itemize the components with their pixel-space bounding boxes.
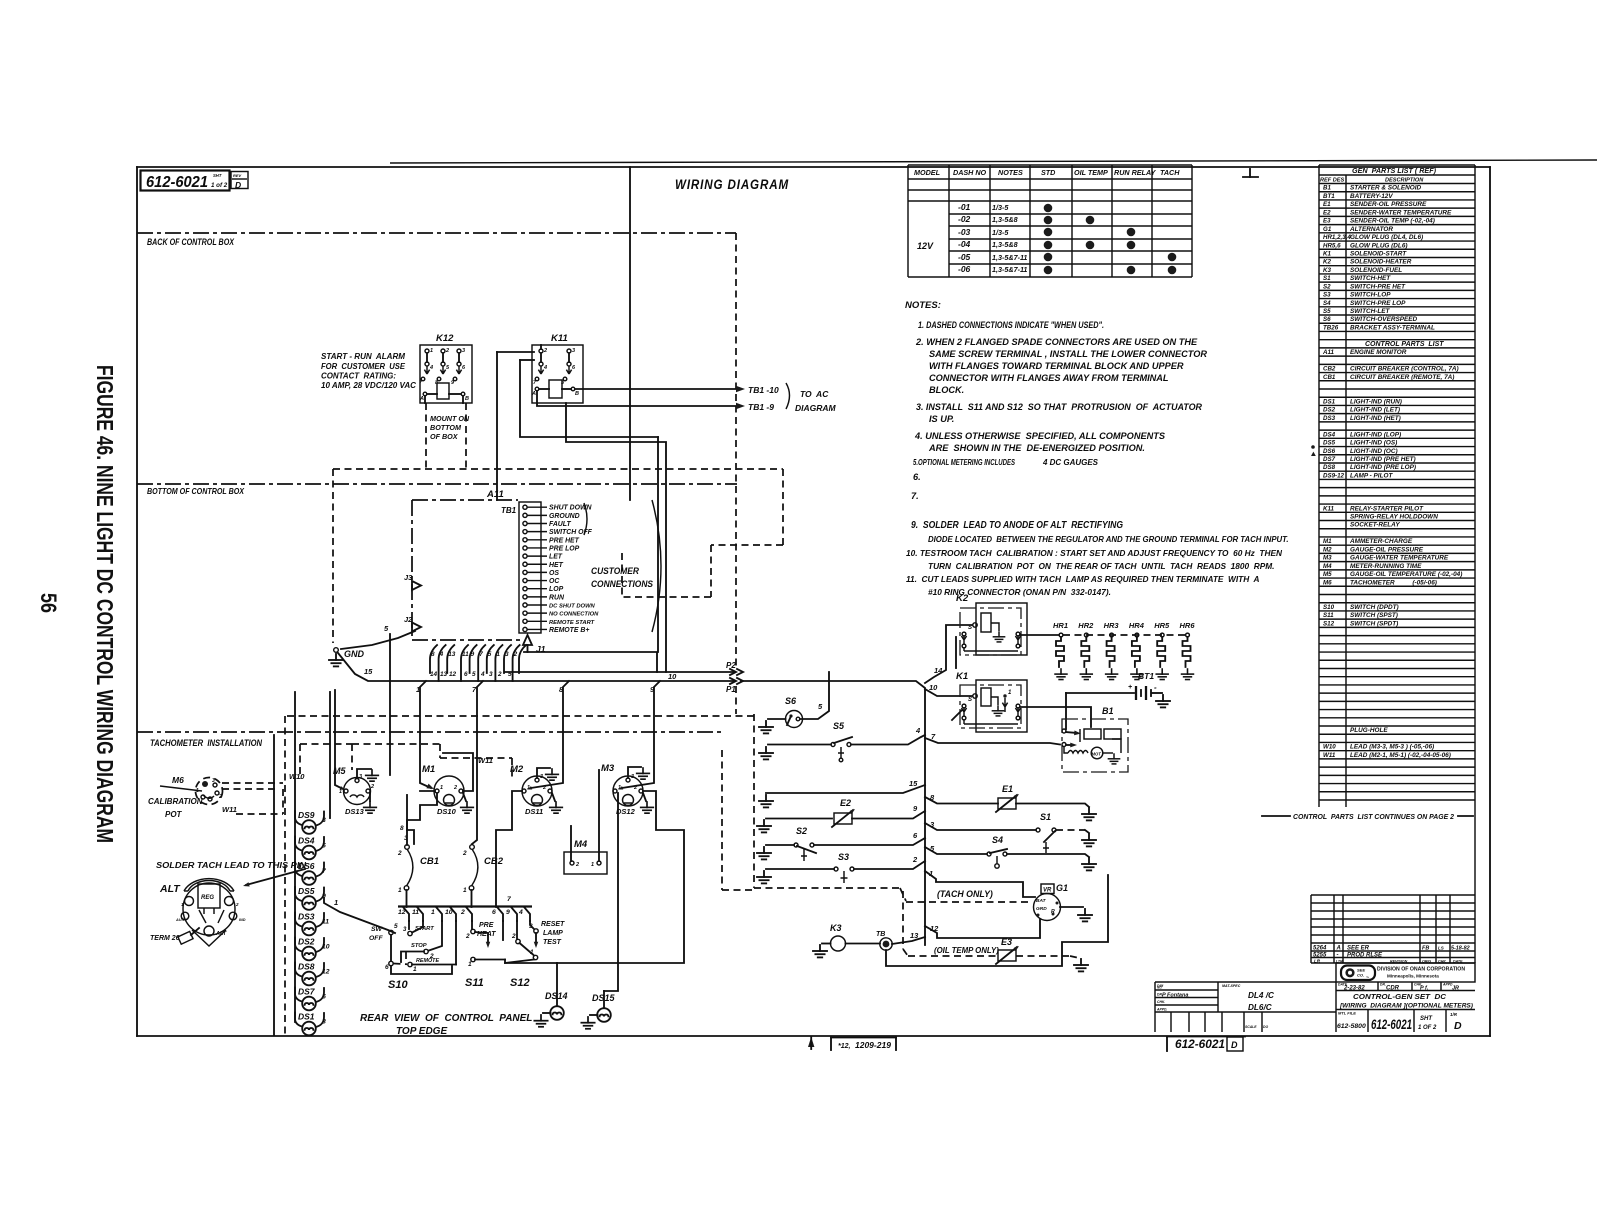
svg-text:12V: 12V <box>917 241 934 251</box>
svg-text:B1: B1 <box>1102 706 1114 716</box>
svg-text:CDR: CDR <box>1386 986 1400 992</box>
svg-text:2: 2 <box>370 784 374 790</box>
ground <box>366 770 379 781</box>
svg-text:LIGHT-IND (LET): LIGHT-IND (LET) <box>1350 407 1400 414</box>
svg-text:1: 1 <box>431 909 435 916</box>
svg-text:6: 6 <box>492 909 496 916</box>
svg-text:LAMP: LAMP <box>543 930 563 937</box>
svg-text:SOLDER TACH LEAD TO THIS PIN: SOLDER TACH LEAD TO THIS PIN <box>156 861 306 870</box>
svg-text:1209-219: 1209-219 <box>855 1040 891 1050</box>
svg-text:7: 7 <box>479 651 483 658</box>
wire M4 pin1 up <box>598 770 600 861</box>
svg-text:SWITCH-HET: SWITCH-HET <box>1350 275 1391 282</box>
ground <box>759 721 773 733</box>
svg-text:BT1: BT1 <box>1323 193 1335 200</box>
svg-text:2-23-82: 2-23-82 <box>1343 986 1365 992</box>
svg-text:1: 1 <box>334 898 338 907</box>
svg-text:2: 2 <box>542 785 546 791</box>
wire P1 line <box>668 672 743 694</box>
ground <box>534 1015 547 1027</box>
ground <box>757 847 771 859</box>
svg-text:S4: S4 <box>992 835 1003 845</box>
panel wiring bus <box>398 896 532 940</box>
svg-text:DS9-12: DS9-12 <box>1323 472 1345 479</box>
notes text block <box>905 300 1207 501</box>
svg-text:TACH: TACH <box>1160 168 1180 177</box>
model option table <box>908 165 1192 277</box>
svg-text:M2: M2 <box>510 764 524 775</box>
svg-text:NO CONNECTION: NO CONNECTION <box>549 612 599 618</box>
label to ac diagram <box>786 383 837 413</box>
svg-text:VR: VR <box>1043 888 1052 894</box>
svg-text:BAT: BAT <box>1036 898 1047 904</box>
svg-text:2: 2 <box>397 850 402 857</box>
svg-text:1 of 2: 1 of 2 <box>211 182 228 189</box>
svg-text:K3: K3 <box>1323 267 1331 274</box>
svg-text:K11: K11 <box>1323 505 1334 512</box>
svg-text:1: 1 <box>527 785 530 791</box>
svg-text:K1: K1 <box>1323 250 1331 257</box>
svg-text:SWITCH-PRE HET: SWITCH-PRE HET <box>1350 283 1406 290</box>
svg-text:STOP: STOP <box>411 943 427 949</box>
switch S5 LET <box>768 721 852 762</box>
wire K11 to TB1-10 <box>575 385 779 395</box>
svg-text:CO.: CO. <box>1357 973 1364 978</box>
wire M1 to CB1 riser <box>407 793 437 845</box>
svg-text:TACHOMETER INSTALLATION: TACHOMETER INSTALLATION <box>150 738 263 749</box>
svg-text:*12,: *12, <box>838 1043 851 1050</box>
svg-text:6.: 6. <box>913 472 921 482</box>
svg-text:PRE HET: PRE HET <box>549 537 580 544</box>
svg-text:MAT-SPEC: MAT-SPEC <box>1222 984 1241 988</box>
note start-run alarm <box>321 352 416 390</box>
svg-text:10: 10 <box>929 683 938 692</box>
svg-text:K12: K12 <box>436 333 454 344</box>
switch S4 pre-LOP <box>987 835 1007 868</box>
wire 5 S6 to P2 <box>800 672 829 719</box>
svg-text:11: 11 <box>412 909 419 916</box>
onan logo block <box>1336 963 1475 982</box>
svg-text:2: 2 <box>218 794 222 800</box>
svg-text:G1: G1 <box>1323 226 1332 233</box>
glow plugs HR1-HR6 <box>1053 621 1195 680</box>
svg-text:[WIRING DIAGRAM ](OPTIONAL ME: [WIRING DIAGRAM ](OPTIONAL METERS) <box>1339 1003 1473 1010</box>
wire control box right boundary <box>735 233 737 668</box>
svg-text:LIGHT-IND (OS): LIGHT-IND (OS) <box>1350 440 1397 447</box>
svg-text:10 AMP, 28 VDC/120 VAC: 10 AMP, 28 VDC/120 VAC <box>321 381 416 390</box>
wire 9 drop to M3 <box>617 681 660 791</box>
svg-text:K2: K2 <box>1323 259 1331 266</box>
svg-text:P f.: P f. <box>1420 986 1429 992</box>
switch S6 overspeed <box>768 696 803 728</box>
svg-text:3: 3 <box>322 817 326 824</box>
wire CB1 to panel bus <box>406 890 408 907</box>
svg-text:DO: DO <box>1263 1025 1268 1029</box>
svg-text:CONTROL PARTS LIST: CONTROL PARTS LIST <box>1365 341 1444 348</box>
svg-text:7.: 7. <box>911 491 919 501</box>
svg-text:9: 9 <box>471 651 475 658</box>
ground <box>759 795 773 807</box>
svg-text:DS3: DS3 <box>1323 415 1336 422</box>
revision table <box>1311 895 1475 964</box>
label customer connections <box>584 500 661 632</box>
svg-text:S5: S5 <box>1323 308 1331 315</box>
svg-text:6: 6 <box>464 671 468 678</box>
svg-text:3: 3 <box>572 348 575 354</box>
ground <box>1082 858 1096 870</box>
svg-text:2: 2 <box>497 671 502 678</box>
wire E1 to ground <box>1016 804 1089 808</box>
svg-text:K1: K1 <box>956 671 968 682</box>
svg-text:NOTES:: NOTES: <box>905 300 941 311</box>
svg-text:HR5,6: HR5,6 <box>1323 242 1341 249</box>
node GND <box>329 648 365 667</box>
svg-text:DS11: DS11 <box>525 807 543 816</box>
svg-text:REF DES: REF DES <box>1320 178 1345 184</box>
svg-text:2: 2 <box>912 855 918 864</box>
svg-text:3: 3 <box>212 778 215 784</box>
svg-text:1: 1 <box>530 949 534 956</box>
svg-text:3: 3 <box>505 651 509 658</box>
title block title <box>1336 992 1475 1010</box>
svg-text:ALT: ALT <box>215 931 227 937</box>
solenoid K3 fuel <box>822 923 846 951</box>
solenoid K2 heater <box>956 593 1027 655</box>
svg-text:ARE SHOWN IN THE DE-ENERGIZE: ARE SHOWN IN THE DE-ENERGIZED POSITION. <box>928 443 1145 453</box>
wire 9 E2 to bus <box>852 804 925 819</box>
wire E3 to ground (dashed) <box>1016 956 1079 958</box>
svg-text:M3: M3 <box>1323 555 1332 562</box>
svg-text:LIGHT-IND (LOP): LIGHT-IND (LOP) <box>1350 431 1401 438</box>
wire 5 bus to S4 <box>925 844 987 854</box>
wire K11 pinA down <box>520 360 666 672</box>
svg-text:HR1: HR1 <box>1053 621 1068 630</box>
svg-text:1,3-5&8: 1,3-5&8 <box>992 215 1018 224</box>
ground <box>1074 959 1088 971</box>
svg-text:REMOTE: REMOTE <box>416 958 439 964</box>
svg-text:DS8: DS8 <box>1323 464 1336 471</box>
wire K12 to customer connections (dashed) <box>333 469 783 643</box>
svg-text:ALTERNATOR: ALTERNATOR <box>1349 226 1393 233</box>
svg-text:3: 3 <box>359 774 362 780</box>
wire tach dashed to G1 <box>754 888 1030 902</box>
svg-text:3. INSTALL S11 AND S12 SO TH: 3. INSTALL S11 AND S12 SO THAT PROTRUSIO… <box>916 402 1202 412</box>
svg-text:DESCRIPTION: DESCRIPTION <box>1385 178 1424 184</box>
svg-text:SENDER-OIL PRESSURE: SENDER-OIL PRESSURE <box>1350 201 1427 208</box>
wire P2 line <box>505 652 743 675</box>
svg-text:11. CUT LEADS SUPPLIED WITH T: 11. CUT LEADS SUPPLIED WITH TACH LAMP AS… <box>906 574 1260 584</box>
ground <box>1078 909 1092 921</box>
svg-text:A11: A11 <box>1322 349 1334 356</box>
svg-text:1: 1 <box>339 789 342 795</box>
svg-text:S11: S11 <box>1323 612 1334 619</box>
svg-text:DS12: DS12 <box>616 807 636 816</box>
svg-text:ENGINE MONITOR: ENGINE MONITOR <box>1350 349 1407 356</box>
svg-text:RUN: RUN <box>549 594 565 601</box>
svg-text:CONTROL-GEN SET DC: CONTROL-GEN SET DC <box>1353 992 1447 1001</box>
wire K1 to B1 solenoid <box>1020 707 1091 727</box>
title block number row <box>1337 1010 1462 1033</box>
svg-text:D: D <box>1231 1040 1238 1050</box>
svg-text:GROUND: GROUND <box>549 513 580 520</box>
svg-text:3: 3 <box>540 774 543 780</box>
sender E3 oil temp <box>996 937 1020 964</box>
svg-text:RELAY-STARTER PILOT: RELAY-STARTER PILOT <box>1350 505 1424 512</box>
svg-text:TERM 26: TERM 26 <box>150 935 180 942</box>
svg-text:OIL TEMP: OIL TEMP <box>1074 168 1108 177</box>
svg-text:SENDER-WATER TEMPERATURE: SENDER-WATER TEMPERATURE <box>1350 209 1452 216</box>
svg-text:REG: REG <box>201 895 214 901</box>
svg-text:CONNECTIONS: CONNECTIONS <box>591 579 653 589</box>
svg-text:-01: -01 <box>958 202 971 212</box>
svg-text:G1: G1 <box>1056 883 1068 893</box>
svg-text:BRACKET ASSY-TERMINAL: BRACKET ASSY-TERMINAL <box>1350 324 1435 331</box>
title block date row <box>1336 982 1475 1032</box>
svg-text:M1: M1 <box>422 764 435 775</box>
svg-text:3: 3 <box>462 348 465 354</box>
drawing number stamp 612-6021 <box>141 171 249 192</box>
svg-text:DS9: DS9 <box>298 810 315 820</box>
svg-text:S3: S3 <box>838 852 849 862</box>
svg-text:11: 11 <box>462 651 469 658</box>
svg-text:4 DC GAUGES: 4 DC GAUGES <box>1042 458 1098 467</box>
svg-text:IND: IND <box>239 918 246 922</box>
svg-text:DS2: DS2 <box>298 937 315 947</box>
wire 13 bus to TB <box>892 931 925 944</box>
svg-text:POT: POT <box>165 810 183 819</box>
svg-text:-03: -03 <box>958 227 971 237</box>
svg-text:BACK OF CONTROL BOX: BACK OF CONTROL BOX <box>147 237 235 247</box>
svg-text:BATTERY-12V: BATTERY-12V <box>1350 193 1393 200</box>
svg-text:8: 8 <box>400 825 404 832</box>
svg-text:LIGHT-IND (RUN): LIGHT-IND (RUN) <box>1350 398 1402 405</box>
svg-text:612-6021: 612-6021 <box>146 174 208 191</box>
svg-text:DS6: DS6 <box>1323 448 1336 455</box>
svg-text:BLOCK.: BLOCK. <box>929 385 964 395</box>
lamp DS14 <box>543 963 568 1020</box>
relay K12 <box>419 333 472 403</box>
svg-text:SOCKET-RELAY: SOCKET-RELAY <box>1350 522 1400 529</box>
svg-text:CB1: CB1 <box>420 856 439 867</box>
sender E1 oil pressure <box>996 784 1020 812</box>
svg-text:(TACH ONLY): (TACH ONLY) <box>937 889 993 899</box>
svg-text:S3: S3 <box>1323 292 1331 299</box>
svg-text:56: 56 <box>36 593 61 613</box>
relay K11 <box>531 333 583 403</box>
svg-text:CB2: CB2 <box>484 856 504 867</box>
svg-text:5: 5 <box>394 923 398 930</box>
svg-text:E2: E2 <box>1323 209 1331 216</box>
svg-text:2: 2 <box>513 651 518 658</box>
svg-text:SOLENOID-FUEL: SOLENOID-FUEL <box>1350 267 1402 274</box>
ground <box>1082 808 1096 820</box>
svg-text:SWITCH-LET: SWITCH-LET <box>1350 308 1390 315</box>
svg-text:CIRCUIT BREAKER (REMOTE, 7A): CIRCUIT BREAKER (REMOTE, 7A) <box>1350 374 1454 381</box>
ground <box>546 769 559 780</box>
svg-text:TB1 -9: TB1 -9 <box>748 402 774 412</box>
ground <box>364 802 377 813</box>
terminal TB26 <box>846 931 893 950</box>
svg-text:CIRCUIT BREAKER (CONTROL, 7A): CIRCUIT BREAKER (CONTROL, 7A) <box>1350 366 1459 373</box>
switch S3 LOP <box>766 852 854 883</box>
svg-text:1/3-5: 1/3-5 <box>992 228 1009 237</box>
svg-text:S2: S2 <box>1323 283 1331 290</box>
svg-text:1: 1 <box>440 785 443 791</box>
svg-text:2: 2 <box>575 862 579 868</box>
svg-text:OFF: OFF <box>369 935 383 942</box>
ground <box>550 802 563 813</box>
svg-text:GND: GND <box>344 649 365 659</box>
svg-text:2: 2 <box>465 933 470 940</box>
svg-text:LS: LS <box>1438 946 1444 951</box>
svg-text:15: 15 <box>909 779 918 788</box>
svg-text:1. DASHED CONNECTIONS INDICATE: 1. DASHED CONNECTIONS INDICATE "WHEN USE… <box>918 320 1104 330</box>
svg-text:SENDER-OIL TEMP (-02,-04): SENDER-OIL TEMP (-02,-04) <box>1350 218 1435 225</box>
wire M3 link down <box>557 791 684 963</box>
svg-text:TO AC: TO AC <box>800 389 829 399</box>
svg-text:M4: M4 <box>1323 563 1332 570</box>
svg-text:LET: LET <box>549 554 563 561</box>
svg-text:DS4: DS4 <box>1323 431 1336 438</box>
svg-text:MOUNT ON: MOUNT ON <box>430 414 470 423</box>
svg-text:+: + <box>1128 684 1132 691</box>
ground <box>757 871 771 883</box>
ground <box>1156 695 1170 707</box>
svg-text:AUX: AUX <box>175 918 184 922</box>
svg-text:8: 8 <box>431 651 435 658</box>
svg-text:M6: M6 <box>1323 579 1332 586</box>
svg-text:2: 2 <box>511 933 516 940</box>
svg-text:ALT: ALT <box>159 883 181 895</box>
svg-text:1/3-5: 1/3-5 <box>992 203 1009 212</box>
svg-text:STD: STD <box>1041 168 1055 177</box>
svg-text:DS7: DS7 <box>298 987 316 997</box>
wire 3 bus to S1 <box>925 820 1036 830</box>
svg-text:DS1: DS1 <box>298 1012 315 1022</box>
notes 9-11 text block <box>906 520 1289 597</box>
svg-text:GAUGE-WATER TEMPERATURE: GAUGE-WATER TEMPERATURE <box>1350 555 1449 562</box>
connector J1 <box>523 635 546 654</box>
svg-text:HR4: HR4 <box>1129 621 1145 630</box>
back of control box boundary <box>137 233 736 247</box>
svg-text:S5: S5 <box>833 721 845 731</box>
svg-text:DS5: DS5 <box>298 886 315 896</box>
circuit breaker CB1 <box>397 845 439 894</box>
svg-text:W11: W11 <box>222 805 237 814</box>
ground <box>759 747 773 759</box>
title block left section <box>1155 982 1336 1032</box>
svg-text:HR5: HR5 <box>1154 621 1170 630</box>
svg-text:S2: S2 <box>796 826 807 836</box>
svg-text:S4: S4 <box>1323 300 1331 307</box>
svg-text:10: 10 <box>668 672 677 681</box>
lamp DS15 <box>590 793 618 1022</box>
svg-text:DS10: DS10 <box>437 807 457 816</box>
svg-text:5264: 5264 <box>1313 946 1327 952</box>
svg-text:2: 2 <box>235 902 239 907</box>
svg-text:D: D <box>1454 1020 1462 1032</box>
svg-text:DIODE LOCATED BETWEEN THE REG: DIODE LOCATED BETWEEN THE REGULATOR AND … <box>928 535 1289 544</box>
svg-text:5: 5 <box>488 651 492 658</box>
svg-text:REV: REV <box>233 173 242 178</box>
svg-text:2: 2 <box>445 348 449 354</box>
svg-text:6: 6 <box>322 994 326 1001</box>
svg-text:TEST: TEST <box>543 939 562 946</box>
svg-text:S6: S6 <box>1323 316 1331 323</box>
wire 1 ladder to S10 <box>324 898 395 933</box>
drawing border <box>137 167 1490 1036</box>
bottom of control box boundary <box>137 484 737 496</box>
svg-text:LR: LR <box>1314 959 1321 964</box>
svg-text:SEE ER: SEE ER <box>1347 946 1370 952</box>
svg-text:-06: -06 <box>958 264 971 274</box>
svg-text:SWITCH-PRE LOP: SWITCH-PRE LOP <box>1350 300 1406 307</box>
switch S11 preheat <box>465 921 505 989</box>
wire oil-temp dashed to E3 <box>903 891 998 956</box>
svg-text:GAUGE-OIL TEMPERATURE (-02,-04: GAUGE-OIL TEMPERATURE (-02,-04) <box>1350 571 1462 578</box>
svg-text:M4: M4 <box>574 839 588 850</box>
svg-text:RESET: RESET <box>541 921 565 928</box>
svg-text:B1: B1 <box>1323 185 1331 192</box>
svg-text:12: 12 <box>449 671 457 678</box>
svg-text:4: 4 <box>480 671 485 678</box>
svg-text:SWITCH-LOP: SWITCH-LOP <box>1350 292 1391 299</box>
svg-text:A: A <box>419 396 424 402</box>
wire K11 to TB1-9 <box>537 391 774 412</box>
svg-text:TB26: TB26 <box>1323 324 1339 331</box>
svg-text:W10: W10 <box>1323 744 1336 751</box>
meter M5 oil temperature <box>333 766 374 816</box>
svg-text:CHK.: CHK. <box>1157 1000 1165 1004</box>
svg-text:LIGHT-IND (HET): LIGHT-IND (HET) <box>1350 415 1401 422</box>
svg-text:10. TESTROOM TACH CALIBRATION: 10. TESTROOM TACH CALIBRATION : START SE… <box>906 548 1283 558</box>
svg-text:LEAD (M2-1, M5-1) (-02,-04-05-: LEAD (M2-1, M5-1) (-02,-04-05-06) <box>1350 752 1451 759</box>
svg-text:TOP EDGE: TOP EDGE <box>396 1026 447 1037</box>
svg-text:(OIL TEMP ONLY): (OIL TEMP ONLY) <box>934 946 999 955</box>
svg-text:DS4: DS4 <box>298 836 315 846</box>
svg-text:P1: P1 <box>726 685 736 694</box>
svg-text:DL4 /C: DL4 /C <box>1248 991 1275 1000</box>
svg-text:P2: P2 <box>726 661 736 670</box>
svg-text:M5: M5 <box>1323 571 1332 578</box>
svg-text:METER-RUNNING TIME: METER-RUNNING TIME <box>1350 563 1422 570</box>
tachometer installation box <box>150 735 274 1035</box>
svg-text:BOTTOM OF CONTROL BOX: BOTTOM OF CONTROL BOX <box>147 486 244 496</box>
svg-text:PRE: PRE <box>479 922 494 929</box>
connector J3 <box>404 573 421 590</box>
wire fold line <box>629 167 631 500</box>
svg-text:S: S <box>968 625 972 631</box>
svg-text:JR: JR <box>1452 986 1459 992</box>
svg-text:2: 2 <box>543 348 547 354</box>
svg-text:1: 1 <box>496 651 500 658</box>
svg-text:DIVISION OF ONAN CORPORATION: DIVISION OF ONAN CORPORATION <box>1377 967 1465 973</box>
svg-text:S12: S12 <box>1323 620 1335 627</box>
svg-text:B: B <box>465 396 469 402</box>
svg-text:A: A <box>531 391 536 397</box>
gen parts list table <box>1311 165 1475 807</box>
wire M1 region links <box>400 795 414 844</box>
wire K11 pin2 left <box>497 345 541 500</box>
svg-text:DS2: DS2 <box>1323 407 1336 414</box>
svg-text:E1: E1 <box>1002 784 1013 794</box>
svg-text:S1: S1 <box>1040 812 1051 822</box>
svg-text:GRD: GRD <box>1036 906 1047 912</box>
svg-text:612-6021: 612-6021 <box>1175 1037 1225 1051</box>
svg-text:B: B <box>575 391 579 397</box>
svg-text:DL6/C: DL6/C <box>1248 1003 1273 1012</box>
wire K2 left loop <box>955 637 957 668</box>
